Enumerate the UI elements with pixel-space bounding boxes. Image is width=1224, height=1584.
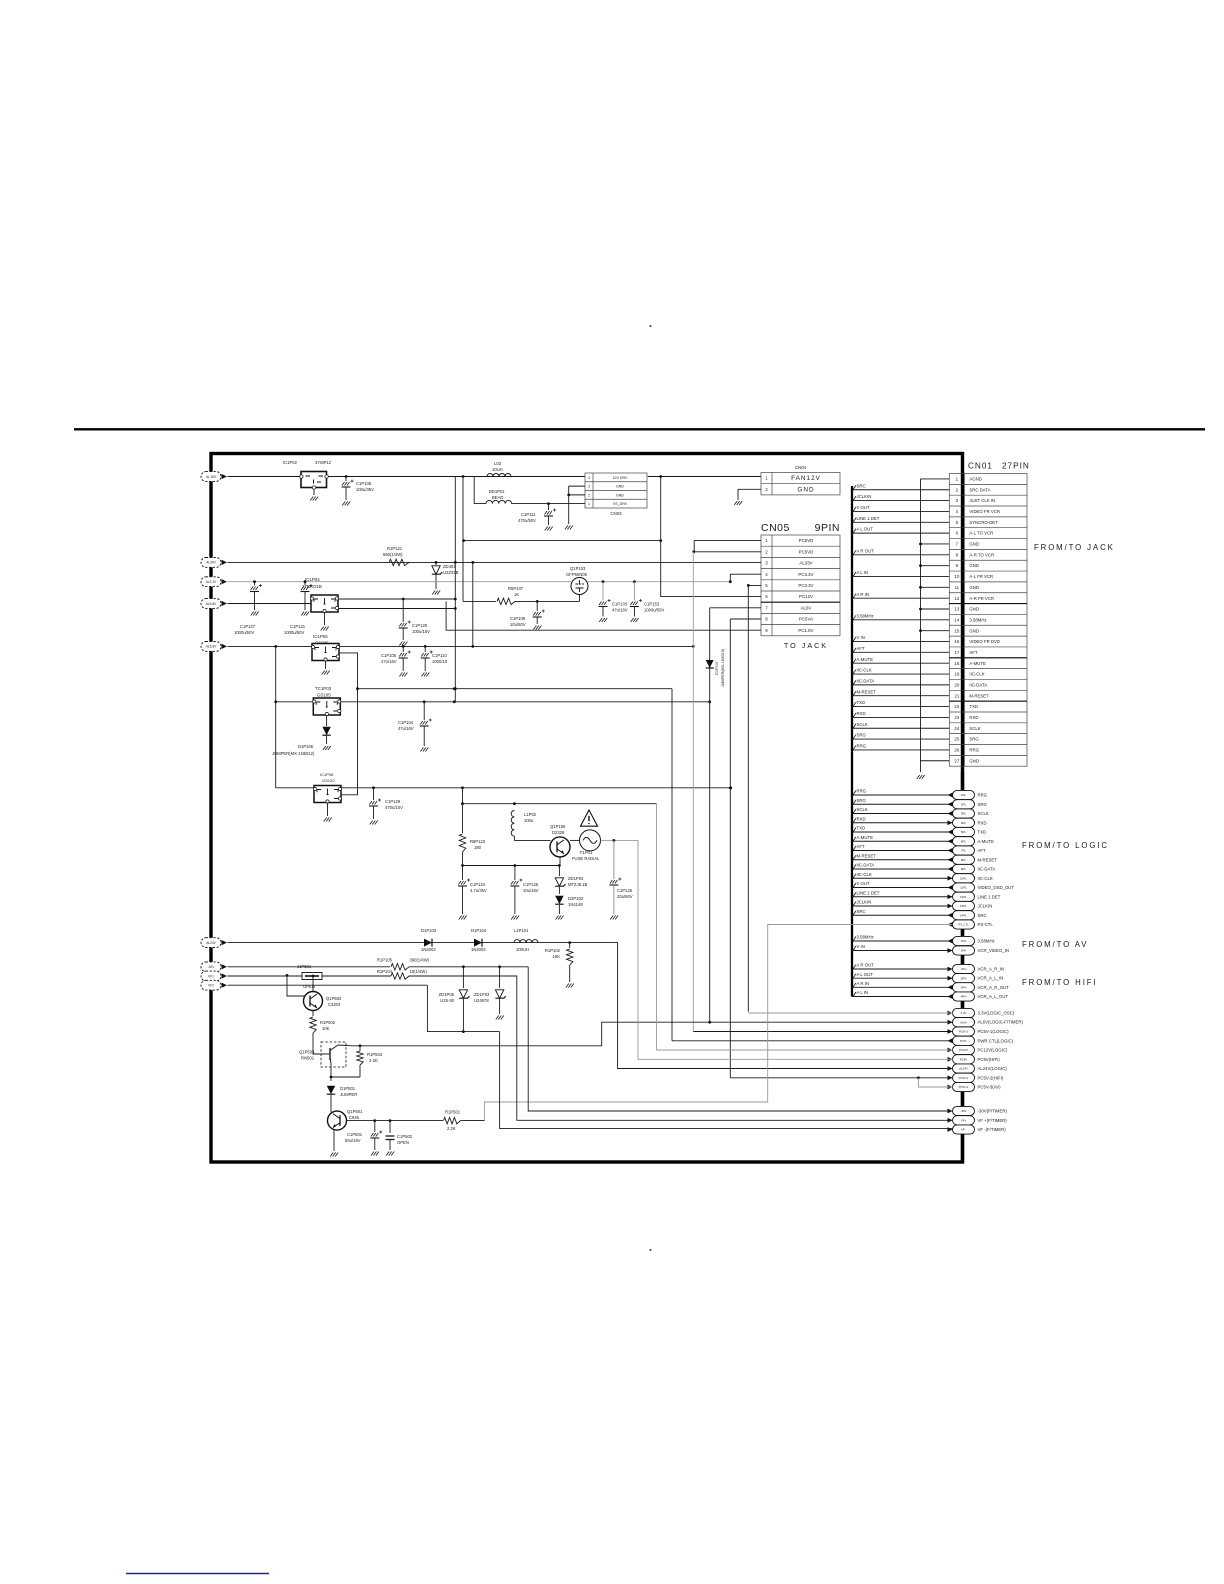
svg-text:AGND: AGND [969, 477, 981, 482]
wire 803 rail [463, 803, 657, 805]
svg-text:ZD401: ZD401 [443, 564, 456, 569]
svg-text:14: 14 [954, 617, 959, 622]
svg-text:IIC-DATA: IIC-DATA [978, 867, 996, 872]
pad 2PL [953, 800, 975, 809]
svg-text:M-RESET: M-RESET [969, 693, 989, 698]
svg-text:AFT: AFT [969, 650, 977, 655]
svg-text:PWR CTL(LOGIC): PWR CTL(LOGIC) [978, 1038, 1014, 1043]
svg-text:24: 24 [954, 726, 959, 731]
pad PC12V [948, 1048, 953, 1053]
svg-text:11: 11 [955, 585, 960, 590]
svg-text:RXD: RXD [857, 816, 866, 821]
wire net IIC-CLK to 10PL [852, 877, 953, 879]
svg-text:AFT: AFT [857, 646, 865, 651]
wire CN01 pin 16 (V IN) [852, 641, 949, 643]
svg-text:SCLK: SCLK [969, 726, 980, 731]
zener ZD1P03b [499, 967, 501, 988]
wire -30V row [228, 966, 391, 968]
svg-text:4PH: 4PH [961, 995, 967, 999]
svg-text:IIC-CLK: IIC-CLK [978, 876, 993, 881]
svg-text:R5P107: R5P107 [508, 586, 524, 591]
svg-text:PC3.3V: PC3.3V [798, 583, 813, 588]
connector CN03 table [585, 473, 647, 508]
capacitor C1P104 [423, 702, 425, 720]
pad VF+ [948, 1118, 953, 1123]
ground (IC1P02) [310, 497, 318, 501]
pad 7PL [953, 846, 975, 855]
pad VF1 [201, 971, 221, 981]
main schematic frame [211, 454, 963, 1163]
svg-text:IIC-DATA: IIC-DATA [857, 863, 875, 868]
ground (C1P104) [420, 748, 428, 752]
svg-text:L1P101: L1P101 [514, 928, 529, 933]
svg-text:PC5V-2(HIFI): PC5V-2(HIFI) [978, 1075, 1004, 1080]
svg-text:SYNCRO-DET: SYNCRO-DET [969, 520, 998, 525]
svg-text:AL33V: AL33V [799, 561, 812, 566]
wire net AFT to 7PL [852, 850, 953, 852]
svg-text:Q1P103: Q1P103 [570, 566, 586, 571]
wire PS-CTL routing [463, 925, 953, 1121]
svg-text:IC1P06: IC1P06 [320, 772, 334, 777]
svg-text:SCLK: SCLK [857, 807, 868, 812]
svg-text:2PH: 2PH [961, 976, 967, 980]
svg-text:CN04: CN04 [795, 465, 807, 470]
svg-text:GND: GND [616, 493, 624, 497]
bottom-left rule line [126, 1573, 269, 1575]
svg-text:D1P501: D1P501 [340, 1086, 356, 1091]
svg-text:GND: GND [969, 585, 979, 590]
pad AL24V [948, 1066, 953, 1071]
svg-text:C1P110: C1P110 [432, 653, 447, 658]
svg-text:TXD: TXD [969, 704, 978, 709]
svg-text:IIC-CLK: IIC-CLK [969, 672, 984, 677]
svg-text:PC12V: PC12V [959, 1048, 968, 1052]
wire CN01 pin 2 (SRC) [852, 489, 949, 491]
svg-text:U25-30: U25-30 [440, 998, 454, 1003]
svg-text:10UH: 10UH [492, 467, 503, 472]
wire net JCLKIN to 13PL [852, 905, 953, 907]
capacitor C1P502 [389, 1121, 391, 1133]
wire VF1 branch to Q1P502 [287, 975, 305, 996]
svg-text:A L OUT: A L OUT [857, 527, 874, 532]
svg-text:A L IN: A L IN [857, 990, 869, 995]
svg-text:1PL: 1PL [961, 793, 967, 797]
svg-text:R1P121: R1P121 [387, 546, 403, 551]
svg-text:RRG: RRG [969, 748, 979, 753]
svg-text:SCLK: SCLK [857, 722, 868, 727]
svg-text:2: 2 [588, 493, 590, 497]
svg-text:3.58MHz: 3.58MHz [969, 617, 986, 622]
wire Q1P106 emitter [559, 857, 561, 866]
svg-text:GND: GND [797, 486, 814, 493]
svg-text:AL24V: AL24V [959, 1067, 968, 1071]
wire PC5V-3 routing [918, 1078, 952, 1087]
frame right bold edge lower segment [961, 772, 964, 1162]
wire net V IN to 2PA [852, 950, 953, 952]
svg-text:D2328: D2328 [552, 830, 565, 835]
pad 8PL [953, 855, 975, 864]
svg-text:A-MUTE: A-MUTE [978, 839, 995, 844]
svg-text:C1P104: C1P104 [398, 720, 414, 725]
svg-text:A R IN: A R IN [857, 981, 869, 986]
svg-text:IIC-CLK: IIC-CLK [857, 872, 872, 877]
ground (C1P125) [511, 916, 519, 920]
svg-text:6PL: 6PL [961, 839, 967, 843]
connector CN05 9PIN table [761, 535, 840, 636]
svg-text:12PL: 12PL [960, 895, 967, 899]
svg-text:JCLKIN: JCLKIN [857, 900, 872, 905]
svg-text:AL5.8V: AL5.8V [206, 602, 217, 606]
svg-text:A-L FR VCR: A-L FR VCR [969, 574, 993, 579]
ground (C1P124) [459, 916, 467, 920]
capacitor C1P129 [373, 788, 375, 800]
pad 14PL [953, 911, 975, 920]
svg-text:RXD: RXD [978, 820, 987, 825]
svg-text:U24978: U24978 [474, 998, 489, 1003]
capacitor C1P121 [304, 580, 307, 583]
svg-text:A-MUTE: A-MUTE [857, 835, 874, 840]
svg-text:AL3.3V: AL3.3V [206, 580, 217, 584]
svg-text:VF2: VF2 [208, 984, 214, 988]
resistor R1P502 [312, 1011, 314, 1017]
svg-text:RRG: RRG [857, 744, 867, 749]
svg-text:VS_DRV: VS_DRV [613, 502, 628, 506]
svg-text:50u/16V: 50u/16V [345, 1138, 361, 1143]
svg-text:JUMPER(MX-1N5019): JUMPER(MX-1N5019) [721, 648, 725, 687]
ground (C1P127) [251, 612, 259, 616]
resistor R1P503 [357, 1051, 363, 1065]
svg-text:PC9V(HIFI): PC9V(HIFI) [978, 1057, 1001, 1062]
diode D1P501 [327, 1086, 335, 1094]
svg-text:C1P125: C1P125 [523, 882, 539, 887]
wire x730 vertical [729, 619, 731, 1078]
wire net RXD to 4PL [852, 822, 953, 824]
svg-text:D1P103: D1P103 [421, 928, 437, 933]
svg-text:Q1P106: Q1P106 [550, 824, 566, 829]
svg-text:17: 17 [954, 650, 959, 655]
top rule line [74, 428, 1205, 430]
wire CN01 pin 25 (SRG) [852, 738, 949, 740]
wire 688 rail [358, 688, 673, 690]
wire net RRG to 1PL [852, 794, 953, 796]
svg-text:-30V: -30V [208, 965, 216, 969]
svg-text:5PL: 5PL [961, 830, 967, 834]
svg-text:10(1/4W): 10(1/4W) [410, 969, 428, 974]
svg-text:D1P104: D1P104 [471, 928, 487, 933]
ground (C1P108) [342, 502, 350, 506]
svg-text:TC1P03: TC1P03 [315, 686, 332, 691]
svg-text:A-R TO VCR: A-R TO VCR [969, 552, 994, 557]
wire CN01 pin 18 (A-MUTE) [852, 662, 949, 664]
svg-text:100u: 100u [524, 818, 534, 823]
svg-text:12: 12 [954, 596, 959, 601]
svg-text:10u/16V: 10u/16V [523, 888, 539, 893]
wire CN01 pin 20 (IIC-DATA) [852, 684, 949, 686]
svg-text:2PA: 2PA [961, 949, 966, 953]
capacitor C1P127 [253, 580, 256, 583]
svg-text:FUSE RADIAL: FUSE RADIAL [572, 856, 600, 861]
wire AL5.8V row [228, 603, 312, 605]
wire left feed vertical [276, 646, 314, 787]
ground (C1P109) [533, 626, 541, 630]
svg-text:MTZJ6.1B: MTZJ6.1B [568, 882, 588, 887]
svg-text:47u/16V: 47u/16V [398, 726, 414, 731]
pad 5PL [953, 827, 975, 836]
svg-text:PC3.3V: PC3.3V [798, 572, 813, 577]
ground (Q1P501) [330, 1153, 338, 1157]
svg-text:13PL: 13PL [960, 904, 967, 908]
svg-text:VF1: VF1 [208, 974, 214, 978]
ground (C1P129) [370, 821, 378, 825]
svg-text:C3203: C3203 [328, 1002, 341, 1007]
svg-text:D1P106: D1P106 [298, 744, 314, 749]
ground (ZD401) [432, 591, 440, 595]
pad AL30V [201, 558, 221, 568]
svg-text:C1P108: C1P108 [356, 481, 372, 486]
svg-text:TXD: TXD [857, 826, 866, 831]
capacitor C1P501 [374, 1121, 376, 1132]
wire 3.3V routing [748, 1012, 952, 1014]
capacitor C1P120 [402, 598, 405, 601]
wire VF2 to pad [427, 985, 499, 1031]
pad 10PL [953, 874, 975, 883]
svg-text:PC5V-3(AV): PC5V-3(AV) [978, 1085, 1002, 1090]
svg-text:C1P105: C1P105 [381, 653, 397, 658]
fuse F1P01 [570, 839, 580, 841]
svg-text:R1P503: R1P503 [367, 1052, 383, 1057]
svg-text:16: 16 [954, 639, 959, 644]
svg-text:19: 19 [954, 672, 959, 677]
capacitor C1P105 [402, 646, 404, 652]
wire AL6V routing [352, 1022, 953, 1046]
zener ZD1P05 [462, 967, 464, 988]
svg-text:D1P107: D1P107 [715, 661, 719, 675]
svg-text:AFT: AFT [978, 848, 986, 853]
svg-text:Q1P502: Q1P502 [326, 996, 342, 1001]
svg-text:R5P123: R5P123 [470, 839, 486, 844]
wire CN01 pin 26 (RRG) [852, 749, 949, 751]
ground (C1P120) [399, 642, 407, 646]
pad AL3.3V [201, 577, 221, 587]
svg-text:1000/10: 1000/10 [432, 659, 448, 664]
svg-text:AL6V(LOGIC-F/TIMER): AL6V(LOGIC-F/TIMER) [978, 1020, 1024, 1025]
wire PC5V-2 routing [730, 1077, 952, 1079]
pad AL5.8V [201, 599, 221, 609]
pad 12PL [953, 892, 975, 901]
svg-text:VCR_VIDEO_IN: VCR_VIDEO_IN [978, 948, 1010, 953]
svg-text:100UH: 100UH [516, 947, 529, 952]
svg-text:C1P127: C1P127 [240, 624, 256, 629]
svg-text:10K: 10K [322, 1026, 330, 1031]
svg-text:100u/16V: 100u/16V [412, 629, 430, 634]
svg-text:LINE 1 DET: LINE 1 DET [857, 890, 880, 895]
ground (R1P102) [566, 984, 574, 988]
svg-text:SRG: SRG [857, 733, 867, 738]
pad -30V [948, 1109, 953, 1114]
svg-text:SCLK: SCLK [978, 811, 989, 816]
svg-text:GND: GND [969, 628, 979, 633]
svg-text:SRG: SRG [978, 802, 988, 807]
svg-text:180: 180 [474, 845, 482, 850]
svg-text:M-RESET: M-RESET [857, 689, 877, 694]
svg-text:JCLKIN: JCLKIN [978, 904, 993, 909]
svg-text:47u/16V: 47u/16V [381, 659, 397, 664]
svg-text:GND: GND [969, 607, 979, 612]
svg-text:470u/10V: 470u/10V [385, 805, 403, 810]
svg-text:47u/16V: 47u/16V [612, 608, 628, 613]
svg-text:PC5V-2: PC5V-2 [959, 1076, 969, 1080]
svg-text:18: 18 [954, 661, 959, 666]
svg-text:JUMPER(MX-1N5012): JUMPER(MX-1N5012) [272, 751, 315, 756]
wire VF1 to pad [409, 976, 953, 1120]
capacitor C1P153 [633, 580, 636, 583]
svg-text:ZD1P03: ZD1P03 [474, 992, 490, 997]
svg-text:C1P120: C1P120 [412, 623, 428, 628]
svg-text:VF +(F/TIMER): VF +(F/TIMER) [978, 1118, 1008, 1123]
wire CN01 pin 8 (A R OUT) [852, 554, 949, 556]
svg-text:RXD: RXD [857, 711, 866, 716]
svg-text:PC1.8V: PC1.8V [798, 628, 813, 633]
svg-text:IC1P04: IC1P04 [305, 577, 320, 582]
svg-text:C1P126: C1P126 [617, 888, 633, 893]
wire -30V to pad [528, 967, 952, 1111]
svg-text:390(1/4W): 390(1/4W) [410, 958, 430, 963]
pad PCTL [948, 1038, 953, 1043]
svg-text:1N4148: 1N4148 [568, 902, 583, 907]
capacitor C1P108 [345, 477, 347, 482]
svg-text:LINE 1 DET: LINE 1 DET [978, 894, 1001, 899]
pad PC5V-2 [948, 1075, 953, 1080]
wire net A L IN to 4PH [852, 996, 953, 998]
wire Q1P501 collector row [347, 1120, 444, 1122]
pad 2PH [953, 974, 975, 983]
svg-text:C1P129: C1P129 [385, 799, 401, 804]
svg-text:AL30V: AL30V [206, 561, 216, 565]
svg-text:A L IN: A L IN [857, 570, 869, 575]
svg-text:V OUT: V OUT [857, 505, 871, 510]
svg-text:Q1P501: Q1P501 [347, 1109, 363, 1114]
wire PC12V routing [657, 804, 953, 1050]
svg-text:RXD: RXD [969, 715, 978, 720]
svg-text:GS120: GS120 [322, 778, 335, 783]
svg-text:PC5V-1(LOGIC): PC5V-1(LOGIC) [978, 1029, 1010, 1034]
svg-text:C1P109: C1P109 [510, 616, 526, 621]
wire Q1P503 collector [338, 1044, 352, 1047]
wire net LINE 1 DET to 12PL [852, 896, 953, 898]
svg-text:FROM/TO AV: FROM/TO AV [1022, 940, 1088, 949]
svg-text:15: 15 [954, 628, 959, 633]
svg-text:GND: GND [616, 485, 624, 489]
svg-text:A R OUT: A R OUT [857, 548, 875, 553]
pad 3PL [953, 809, 975, 818]
svg-text:PCTL: PCTL [960, 1039, 968, 1043]
svg-text:RN501: RN501 [301, 1056, 315, 1061]
wire CN05 pin8 to x730 [730, 618, 761, 620]
svg-text:3.58MHz: 3.58MHz [978, 939, 995, 944]
svg-text:GFP50N06: GFP50N06 [566, 572, 588, 577]
diode D1P107 vertical [709, 608, 711, 1022]
svg-text:VCR_A_R_IN: VCR_A_R_IN [978, 967, 1005, 972]
page dot upper [649, 325, 651, 327]
wire net SRC to 14PL [852, 914, 953, 916]
CN01 ground bus wire [920, 479, 922, 772]
svg-text:VF+: VF+ [961, 1119, 967, 1123]
ground (CN03 pins 2,3) [565, 526, 573, 530]
wire CN01 pin 10 (A L IN) [852, 575, 949, 577]
wire net SCLK to 3PL [852, 813, 953, 815]
svg-text:TXD: TXD [978, 830, 987, 835]
svg-text:1PA: 1PA [961, 939, 966, 943]
wire IC1P05 gnd [325, 661, 327, 670]
svg-text:1000u/50V: 1000u/50V [284, 630, 304, 635]
pad 1PH [953, 964, 975, 973]
diode D1P106 [326, 715, 328, 726]
svg-text:SRC: SRC [978, 913, 987, 918]
pad 1PA [953, 936, 975, 945]
svg-text:R1P105: R1P105 [377, 958, 393, 963]
svg-text:AL6V: AL6V [801, 605, 812, 610]
svg-text:JCLKIN: JCLKIN [857, 494, 872, 499]
svg-text:25: 25 [954, 737, 959, 742]
svg-text:V IN: V IN [857, 944, 865, 949]
zener ZD401 [435, 561, 438, 564]
wire gate feed [462, 477, 464, 602]
svg-text:A-MUTE: A-MUTE [969, 661, 986, 666]
svg-text:3PL: 3PL [961, 812, 967, 816]
wire IC1P02 gnd [313, 489, 315, 495]
wire CN01 pin 5 (LINE 1 DET) [852, 521, 949, 523]
wire IC1P05 out2 [339, 653, 358, 795]
svg-text:1N4002: 1N4002 [471, 947, 486, 952]
connector CN01 27PIN table [949, 474, 1027, 767]
wire CN04 pin2 to ground [738, 489, 761, 500]
svg-text:AL24V(LOGIC): AL24V(LOGIC) [978, 1066, 1008, 1071]
pad 3PH [953, 983, 975, 992]
pad PC5V-3 [948, 1085, 953, 1090]
svg-text:M-RESET: M-RESET [978, 857, 998, 862]
svg-text:C1P111: C1P111 [521, 512, 536, 517]
ground (ZD1P03b) [496, 1016, 504, 1020]
svg-text:L1P02: L1P02 [524, 812, 537, 817]
svg-text:PC5VA: PC5VA [799, 617, 813, 622]
page dot lower [649, 1249, 651, 1251]
svg-text:LINE 1 DET: LINE 1 DET [857, 516, 880, 521]
svg-text:3PH: 3PH [961, 986, 967, 990]
svg-text:560(1/4W): 560(1/4W) [383, 552, 403, 557]
svg-text:IIC-CLK: IIC-CLK [857, 668, 872, 673]
svg-text:U2Z33B: U2Z33B [443, 570, 459, 575]
svg-text:27BRO1B: 27BRO1B [302, 584, 322, 589]
ground (zener chain) [556, 916, 564, 920]
svg-text:3.3V(LOGIC_OSC): 3.3V(LOGIC_OSC) [978, 1011, 1015, 1016]
svg-text:4PL: 4PL [961, 821, 967, 825]
wire net 3.58MHz to 1PA [852, 940, 953, 942]
wire pin1 crossing net [464, 540, 661, 542]
svg-text:1PH: 1PH [961, 967, 967, 971]
wire AL15V rail [228, 476, 586, 478]
svg-text:A-MUTE: A-MUTE [857, 657, 874, 662]
svg-text:-30V: -30V [960, 1109, 966, 1113]
wire IC1P06 gnd [327, 803, 329, 817]
ground (C1P153) [631, 618, 639, 622]
wire fuse out [601, 839, 639, 841]
svg-text:VCR_A_L_OUT: VCR_A_L_OUT [978, 994, 1009, 999]
svg-text:21: 21 [954, 693, 959, 698]
svg-text:PC5V-1: PC5V-1 [959, 1030, 969, 1034]
svg-text:V IN: V IN [857, 635, 865, 640]
svg-text:SRG: SRG [857, 798, 867, 803]
ground (D1P106) [323, 746, 331, 750]
